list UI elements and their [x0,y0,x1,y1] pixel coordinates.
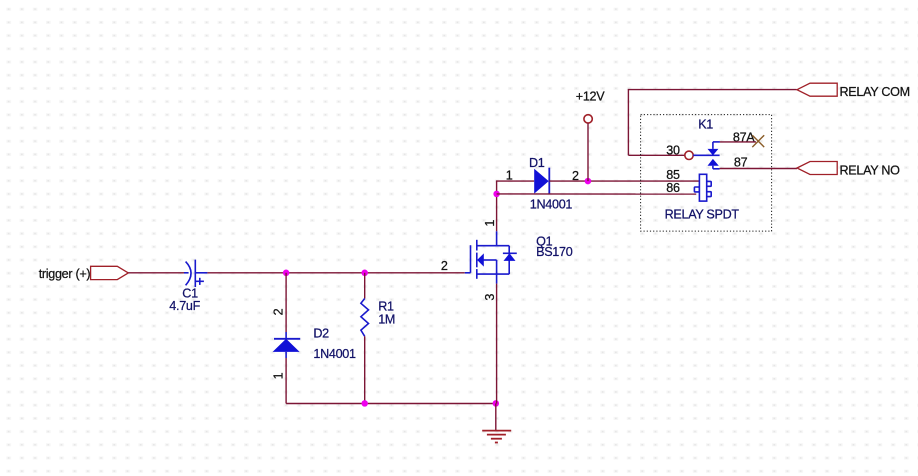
relay contact NC arrow [708,149,719,156]
wire Q1 source [496,284,498,404]
svg-text:K1: K1 [698,118,713,132]
wire relay COM [628,90,796,156]
wire drain up to D1 [497,181,535,194]
wire Q1 drain [496,194,498,231]
svg-text:RELAY NO: RELAY NO [840,163,901,177]
svg-text:1: 1 [506,168,513,182]
Q1 arrow [477,253,484,266]
relay contact arm [693,142,720,169]
svg-text:trigger (+): trigger (+) [39,267,91,281]
wire relay 86 to drain [497,193,697,195]
relay K1 dashed box [641,115,772,232]
wire relay 30 [628,154,684,156]
no-connect X on 87A [752,135,764,147]
wire D1 cathode to relay 85 [549,180,699,182]
svg-text:D1: D1 [529,156,545,170]
node junction D2 [283,270,290,277]
relay pin 30 terminal [685,151,693,159]
resistor R1 [361,299,369,337]
Q1 body diode [504,253,516,261]
node junction source to ground [493,400,500,407]
svg-text:86: 86 [666,181,680,195]
diode D2 [273,332,301,358]
svg-text:87: 87 [734,156,748,170]
svg-text:4.7uF: 4.7uF [169,299,200,313]
svg-text:1: 1 [272,372,286,379]
svg-text:RELAY COM: RELAY COM [840,85,910,99]
node junction R1 top [361,270,368,277]
svg-text:BS170: BS170 [536,245,573,259]
svg-text:1N4001: 1N4001 [530,197,573,211]
wire 87 to RELAY NO [720,168,797,170]
transistor Q1 [465,231,517,283]
relay coil K1 [694,174,711,201]
+12V terminal [584,115,592,123]
wire 87A stub [720,141,756,143]
diode D1 [534,168,549,195]
wire +12V down [587,123,589,181]
svg-text:85: 85 [666,168,680,182]
port RELAY COM tag [797,83,837,96]
wire D2 top [285,273,287,332]
svg-text:30: 30 [666,144,680,158]
wire R1 top [364,273,366,299]
wire trigger to C1 [128,272,184,274]
wire ground rail [286,403,496,405]
wire D2 bottom [285,358,287,404]
port RELAY NO tag [797,162,837,175]
node junction +12V [585,178,592,185]
wire R1 bottom [364,336,366,403]
node junction drain [493,191,500,198]
svg-text:2: 2 [441,259,448,273]
wire C1 to Q1 gate [207,272,464,274]
svg-text:RELAY SPDT: RELAY SPDT [665,208,740,222]
ground [482,431,511,443]
svg-text:3: 3 [483,294,497,301]
svg-text:1N4001: 1N4001 [313,347,356,361]
capacitor C1 [184,260,207,287]
svg-text:+12V: +12V [576,89,605,103]
relay contact NO arrow [708,159,719,166]
port trigger (+) tag [91,266,129,279]
svg-text:1M: 1M [378,312,395,326]
node junction R1 bottom [361,400,368,407]
svg-text:1: 1 [483,220,497,227]
wire to ground symbol [495,403,497,430]
svg-text:D2: D2 [313,327,329,341]
svg-text:2: 2 [272,308,286,315]
